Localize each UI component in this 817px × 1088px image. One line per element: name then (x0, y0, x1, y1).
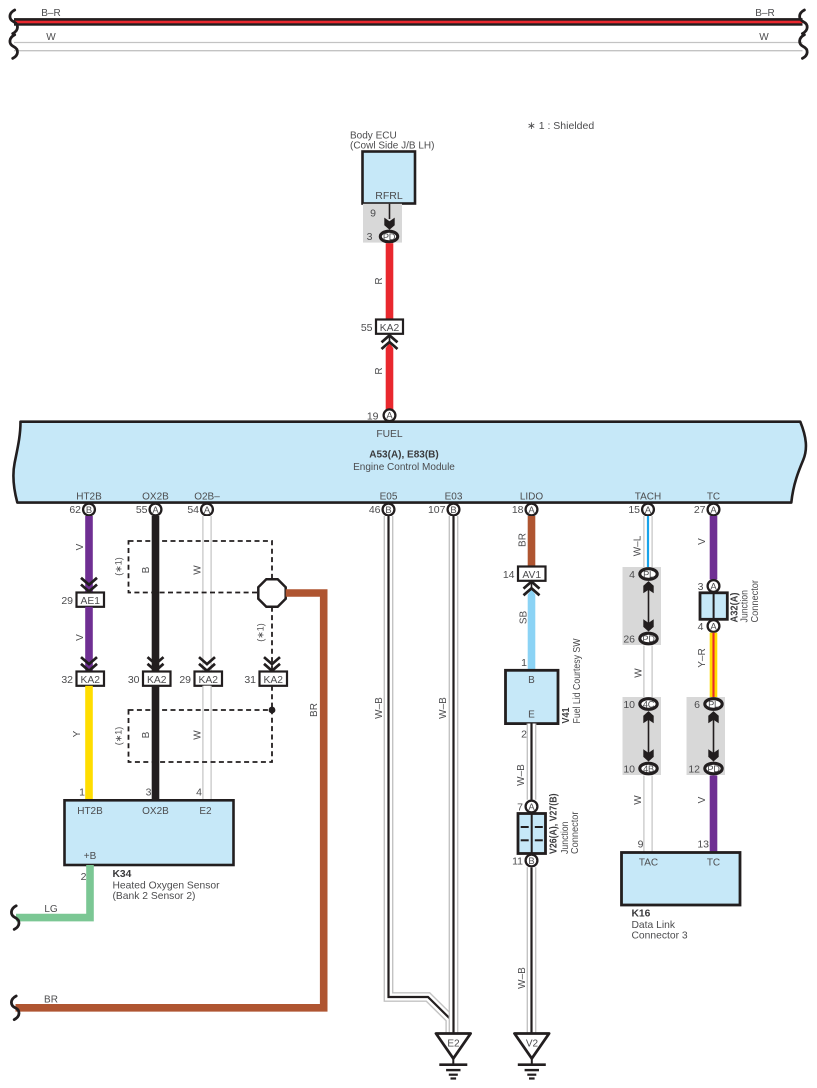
wire W (PD to 4C) (643, 646, 652, 698)
svg-text:PL: PL (643, 570, 654, 580)
wire W-B (E05 to ground E2) (389, 516, 451, 1034)
svg-text:FUEL: FUEL (376, 429, 403, 440)
wire B-R (top bus) (14, 18, 803, 26)
svg-text:1: 1 (521, 657, 527, 669)
svg-text:KA2: KA2 (380, 323, 400, 334)
pin 3 A (708, 580, 720, 592)
svg-text:2: 2 (521, 729, 527, 741)
svg-text:Engine Control Module: Engine Control Module (353, 462, 455, 473)
ground E2 (436, 1034, 471, 1079)
pin 19 A (384, 409, 396, 421)
svg-text:54: 54 (187, 504, 199, 516)
svg-text:AE1: AE1 (80, 596, 100, 607)
chevron up into AV1 (524, 582, 540, 596)
junction connector AE1 pin 29 (77, 593, 105, 607)
svg-text:V41: V41 (561, 707, 572, 723)
svg-text:AV1: AV1 (522, 570, 541, 581)
svg-text:Y: Y (72, 730, 83, 737)
svg-text:TAC: TAC (639, 858, 658, 869)
svg-text:R: R (374, 277, 385, 284)
svg-text:TC: TC (707, 858, 720, 869)
svg-text:55: 55 (361, 322, 373, 334)
wire BR (pin18 to AV1) (528, 516, 536, 567)
svg-text:12: 12 (688, 763, 700, 775)
svg-text:18: 18 (512, 504, 524, 516)
svg-text:PL: PL (708, 700, 719, 710)
svg-text:(∗1): (∗1) (114, 727, 124, 746)
junction block shade (PD) (363, 204, 402, 243)
connector 4C (640, 699, 657, 710)
svg-text:W–B: W–B (438, 697, 449, 719)
svg-text:A: A (710, 620, 717, 631)
junction dot (269, 707, 276, 714)
svg-text:A: A (386, 410, 393, 421)
connector PL (640, 569, 657, 580)
wire RFRL pin 9 (389, 204, 391, 219)
break squiggle W left (10, 35, 18, 59)
svg-text:10: 10 (623, 699, 635, 711)
svg-text:R: R (374, 367, 385, 374)
svg-text:E03: E03 (445, 492, 463, 503)
shield box lower (*1) (129, 710, 273, 762)
junction connector KA2 pin 55 (376, 320, 403, 334)
break squiggle W right (800, 35, 808, 59)
svg-text:A: A (204, 504, 211, 515)
chevron into AE1 (81, 578, 97, 592)
wire W-B (V41 to V26) (527, 724, 537, 800)
svg-text:4: 4 (629, 569, 635, 581)
svg-text:Connector 3: Connector 3 (632, 930, 688, 941)
svg-text:W: W (633, 795, 644, 805)
svg-text:W–L: W–L (633, 535, 644, 556)
pin 15 A (642, 504, 654, 516)
svg-text:V2: V2 (526, 1039, 539, 1050)
svg-text:E: E (528, 710, 535, 721)
wire W (4B to K16 pin9) (643, 776, 652, 853)
svg-text:Connector: Connector (570, 811, 581, 854)
svg-text:Y–R: Y–R (697, 648, 708, 667)
svg-text:B: B (385, 504, 391, 515)
wire W-L (pin15 to PL) (643, 516, 652, 567)
svg-text:W: W (193, 565, 204, 575)
break squiggle B-R left (10, 10, 18, 34)
svg-text:13: 13 (697, 839, 709, 851)
junction connector V26/V27 (518, 814, 546, 854)
wire W-B (E03 to ground E2) (449, 516, 459, 1034)
ECM A53(A) E83(B) band (13, 422, 806, 503)
chevron into KA2 32 (81, 657, 97, 671)
shield octagon (258, 579, 285, 606)
svg-text:3: 3 (367, 231, 373, 243)
wire R (KA2 to ECU pin 19) (386, 343, 394, 410)
svg-text:K34: K34 (113, 869, 132, 880)
svg-text:4: 4 (698, 621, 704, 633)
junction connector KA2 pin 29 (195, 672, 223, 686)
svg-text:B: B (450, 504, 456, 515)
pin 11 B (526, 855, 538, 867)
svg-text:46: 46 (369, 504, 381, 516)
svg-text:V: V (697, 796, 708, 803)
svg-text:BR: BR (44, 995, 58, 1006)
svg-text:6: 6 (694, 699, 700, 711)
svg-text:V: V (75, 634, 86, 641)
svg-text:3: 3 (146, 787, 152, 799)
wire stub KA2 55 (389, 334, 391, 342)
svg-text:30: 30 (128, 674, 140, 686)
svg-text:W: W (193, 730, 204, 740)
pin 54 A (201, 504, 213, 516)
arrowhead into PD (384, 218, 394, 230)
svg-text:KA2: KA2 (198, 675, 218, 686)
svg-text:W–B: W–B (516, 764, 527, 786)
svg-text:10: 10 (623, 763, 635, 775)
svg-text:PD: PD (707, 764, 720, 774)
svg-text:15: 15 (628, 504, 640, 516)
switch V41 (506, 670, 559, 723)
svg-text:TACH: TACH (635, 492, 661, 503)
svg-text:(∗1): (∗1) (114, 557, 124, 576)
svg-text:O2B–: O2B– (194, 492, 220, 503)
wire R (PD to KA2) (386, 243, 394, 320)
connector PD (705, 763, 722, 774)
junction block shade PL/PD (623, 567, 662, 645)
junction connector A32 (700, 593, 727, 620)
svg-text:E05: E05 (380, 492, 398, 503)
break squiggle B-R right (800, 10, 808, 34)
arrow 4C-4B (643, 711, 653, 761)
pin 107 B (448, 504, 460, 516)
svg-text:OX2B: OX2B (142, 806, 169, 817)
svg-text:(Bank 2 Sensor 2): (Bank 2 Sensor 2) (113, 891, 196, 902)
svg-text:RFRL: RFRL (375, 190, 403, 202)
junction connector KA2 pin 31 (260, 672, 288, 686)
svg-text:K16: K16 (632, 909, 651, 920)
chevron into KA2 29 (199, 657, 215, 671)
svg-text:62: 62 (69, 504, 81, 516)
wire SB (AV1 to V41) (528, 589, 536, 670)
pin 55 A (150, 504, 162, 516)
svg-text:KA2: KA2 (263, 675, 283, 686)
chevron into KA2 31 (264, 657, 280, 671)
arrow PL-PD (643, 581, 653, 631)
wire V (pin62 to AE1) (85, 516, 93, 593)
svg-text:A: A (710, 580, 717, 591)
svg-text:TC: TC (707, 492, 720, 503)
svg-text:V26(A), V27(B): V26(A), V27(B) (549, 794, 560, 855)
svg-text:(Cowl Side J/B LH): (Cowl Side J/B LH) (350, 141, 434, 152)
svg-text:BR: BR (518, 533, 529, 547)
svg-text:KA2: KA2 (147, 675, 167, 686)
wire V (AE1 to KA2) (85, 607, 93, 672)
svg-text:LG: LG (44, 904, 58, 915)
wire V (pin27 to A32) (710, 516, 718, 580)
svg-text:W: W (46, 32, 56, 43)
junction connector KA2 pin 30 (143, 672, 171, 686)
svg-text:∗ 1 : Shielded: ∗ 1 : Shielded (527, 120, 594, 132)
wire V (PD to K16 pin13) (710, 776, 718, 853)
wire BR (octagon to right and down) (16, 593, 324, 1008)
svg-text:31: 31 (244, 674, 256, 686)
svg-text:7: 7 (517, 801, 523, 813)
junction block shade 4C/4B (623, 697, 662, 775)
svg-text:27: 27 (694, 504, 706, 516)
wire W (KA2 to K34 pin4) (202, 686, 211, 801)
wire Y-R (A32 to PL) (710, 633, 718, 697)
svg-text:B–R: B–R (41, 8, 60, 19)
svg-text:W–B: W–B (517, 967, 528, 989)
svg-text:A32(A): A32(A) (729, 593, 740, 623)
wire Y (KA2 to K34 pin1) (85, 686, 93, 801)
svg-text:4C: 4C (643, 700, 655, 710)
svg-text:(∗1): (∗1) (256, 623, 266, 642)
svg-text:32: 32 (61, 674, 73, 686)
svg-text:Fuel Lid Courtesy SW: Fuel Lid Courtesy SW (572, 638, 583, 723)
shield drain dashed (octagon to KA2 31) (271, 607, 273, 672)
svg-text:4: 4 (196, 787, 202, 799)
svg-text:B: B (86, 504, 92, 515)
connector PD (380, 231, 397, 242)
junction block shade PL/PD (TC) (687, 697, 726, 775)
wire B (pin55 to KA2 30) (152, 516, 160, 672)
svg-text:Connector: Connector (750, 579, 761, 622)
svg-text:2: 2 (81, 871, 87, 883)
wire B (KA2 to K34 pin3) (152, 686, 160, 801)
svg-text:W–B: W–B (374, 697, 385, 719)
break squiggle LG (11, 906, 19, 930)
wire W (pin54 to KA2 29) (202, 516, 211, 672)
chevron into KA2 30 (148, 657, 164, 671)
relay block RFRL (Body ECU) (363, 152, 416, 204)
pin 62 B (83, 504, 95, 516)
chevron up into KA2 (382, 335, 398, 349)
svg-text:HT2B: HT2B (76, 492, 102, 503)
wire stub AV1 (531, 581, 533, 589)
pin 7 A (526, 801, 538, 813)
svg-text:E2: E2 (199, 806, 212, 817)
shield drain dashed (KA2 31 to lower box) (271, 686, 273, 710)
svg-text:BR: BR (309, 703, 320, 717)
svg-text:9: 9 (638, 839, 644, 851)
svg-text:B: B (528, 855, 534, 866)
svg-text:W: W (634, 668, 645, 678)
svg-text:3: 3 (698, 581, 704, 593)
connector K16 Data Link (622, 853, 741, 906)
svg-text:HT2B: HT2B (77, 806, 103, 817)
svg-text:A53(A), E83(B): A53(A), E83(B) (369, 450, 438, 461)
svg-text:9: 9 (370, 208, 376, 220)
svg-text:29: 29 (61, 595, 73, 607)
connector PD (640, 633, 657, 644)
junction connector AV1 pin 14 (518, 567, 546, 581)
pin 18 A (526, 504, 538, 516)
pin 27 A (708, 504, 720, 516)
svg-text:B: B (141, 731, 152, 738)
svg-text:KA2: KA2 (80, 675, 100, 686)
ground V2 (515, 1034, 550, 1079)
pin 4 A (708, 620, 720, 632)
svg-text:LIDO: LIDO (520, 492, 544, 503)
svg-text:E2: E2 (447, 1039, 460, 1050)
svg-text:4B: 4B (643, 764, 654, 774)
svg-text:A: A (528, 801, 535, 812)
svg-text:B–R: B–R (755, 8, 774, 19)
wire W (top bus) (14, 43, 803, 51)
svg-text:PD: PD (642, 634, 655, 644)
arrow PL-PD (TC) (708, 711, 718, 761)
break squiggle BR (11, 996, 19, 1020)
svg-text:B: B (528, 675, 535, 686)
svg-text:107: 107 (428, 504, 446, 516)
svg-text:W: W (759, 32, 769, 43)
svg-text:1: 1 (79, 787, 85, 799)
connector 4B (640, 763, 657, 774)
svg-text:PD: PD (383, 232, 396, 242)
junction connector KA2 pin 32 (77, 672, 105, 686)
pin 46 B (383, 504, 395, 516)
svg-text:55: 55 (136, 504, 148, 516)
svg-text:V: V (75, 543, 86, 550)
svg-text:29: 29 (179, 674, 191, 686)
shield box upper (*1) (129, 541, 273, 593)
wire LG (K34 +B) (16, 865, 90, 918)
svg-text:+B: +B (84, 851, 97, 862)
svg-text:26: 26 (623, 633, 635, 645)
svg-text:B: B (141, 566, 152, 573)
svg-text:SB: SB (519, 611, 530, 625)
svg-text:A: A (710, 504, 717, 515)
connector PL (705, 699, 722, 710)
svg-text:A: A (528, 504, 535, 515)
sensor K34 (65, 800, 234, 865)
svg-text:V: V (697, 538, 708, 545)
svg-text:14: 14 (503, 569, 515, 581)
wire W-B (V26 to ground V2) (527, 867, 537, 1034)
svg-text:A: A (152, 504, 159, 515)
svg-text:11: 11 (512, 855, 523, 867)
svg-text:OX2B: OX2B (142, 492, 169, 503)
svg-text:A: A (645, 504, 652, 515)
